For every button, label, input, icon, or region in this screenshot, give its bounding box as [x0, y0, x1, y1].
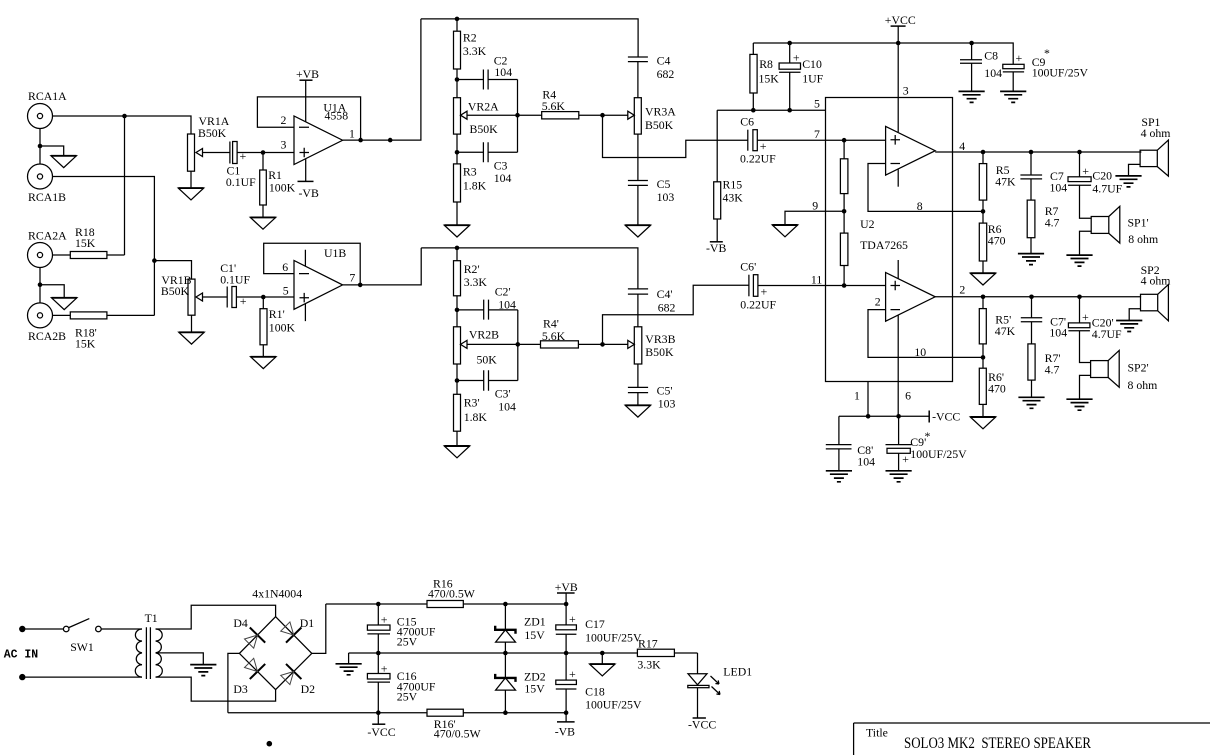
- speaker SP2: [1141, 263, 1171, 321]
- svg-text:R8: R8: [759, 57, 773, 71]
- svg-text:B50K: B50K: [161, 284, 190, 298]
- ground SP1: [1115, 176, 1141, 187]
- svg-text:6: 6: [282, 260, 288, 274]
- wire SP1 return: [1129, 164, 1141, 176]
- power +VB at C17: [555, 580, 578, 604]
- svg-text:5.6K: 5.6K: [542, 99, 566, 113]
- resistor R17: [637, 637, 674, 672]
- ground SP2: [1116, 321, 1142, 332]
- ground R7': [1018, 397, 1044, 408]
- wire AC bottom to transformer: [26, 676, 143, 678]
- resistor R15: [714, 178, 744, 242]
- wire -VCC rail under U2: [839, 415, 929, 417]
- junction ZD1 top: [503, 602, 508, 607]
- resistor R7: [1027, 200, 1059, 254]
- svg-text:100UF/25V: 100UF/25V: [910, 447, 967, 461]
- junction pin8 node: [981, 209, 986, 214]
- power -VCC at LED1: [688, 718, 716, 732]
- svg-text:C6': C6': [740, 260, 756, 274]
- junction U1A + input node: [261, 150, 266, 155]
- potentiometer VR2B: [454, 327, 518, 367]
- capacitor C3': [457, 370, 518, 413]
- svg-text:C4: C4: [657, 54, 671, 68]
- svg-text:47K: 47K: [995, 324, 1016, 338]
- junction C10 bottom: [787, 108, 792, 113]
- capacitor C1': [220, 261, 263, 308]
- junction VR1B node: [152, 258, 157, 263]
- wire -VCC PSU rail: [228, 712, 566, 714]
- resistor R1: [260, 153, 296, 218]
- node marker dot: [267, 741, 273, 747]
- capacitor C10: [779, 43, 824, 110]
- ground C5: [625, 225, 650, 237]
- svg-text:+: +: [1082, 310, 1089, 324]
- svg-text:15V: 15V: [524, 628, 545, 642]
- junction pin9 internal: [842, 209, 847, 214]
- svg-text:43K: 43K: [723, 191, 744, 205]
- svg-text:25V: 25V: [397, 635, 418, 649]
- svg-text:C8: C8: [984, 49, 998, 63]
- capacitor C6: [740, 115, 826, 166]
- svg-text:104: 104: [1049, 326, 1067, 340]
- junction R5 top: [981, 150, 986, 155]
- wire shield elbow 1: [40, 146, 64, 156]
- ground R6': [970, 417, 995, 429]
- svg-text:*: *: [1044, 46, 1050, 60]
- svg-text:1UF: 1UF: [802, 72, 823, 86]
- svg-text:R2': R2': [464, 262, 480, 276]
- ground input shield 2: [51, 298, 76, 310]
- svg-text:5.6K: 5.6K: [542, 329, 566, 343]
- resistor R16: [427, 577, 476, 608]
- svg-text:+: +: [381, 613, 388, 627]
- svg-text:C6: C6: [740, 115, 754, 129]
- svg-text:+: +: [381, 662, 388, 676]
- svg-text:C2': C2': [495, 285, 511, 299]
- wire pin7 row: [826, 139, 886, 141]
- resistor R5': [979, 297, 1015, 358]
- svg-text:T1: T1: [145, 611, 158, 625]
- junction C20 top: [1077, 150, 1082, 155]
- capacitor C1: [226, 142, 263, 190]
- potentiometer VR1A: [188, 114, 230, 171]
- svg-text:R17: R17: [638, 637, 658, 651]
- wire SP2 return: [1129, 309, 1140, 321]
- svg-text:U1B: U1B: [324, 246, 346, 260]
- wire RCA1A to RCA1B shield link: [39, 129, 41, 165]
- svg-text:2: 2: [281, 113, 287, 127]
- svg-text:8 ohm: 8 ohm: [1128, 378, 1158, 392]
- ground VR1A: [178, 188, 203, 200]
- wire RCA1A junction down to R18: [124, 116, 126, 255]
- svg-text:ZD1: ZD1: [524, 615, 546, 629]
- svg-text:15K: 15K: [759, 72, 780, 86]
- wire secondary bottom to bridge: [156, 677, 276, 701]
- ground R1: [250, 217, 275, 229]
- wire RCA2A to RCA2B shield link: [39, 268, 41, 304]
- svg-text:104: 104: [494, 65, 512, 79]
- svg-text:Title: Title: [866, 726, 888, 740]
- junction U1A output node: [388, 138, 393, 143]
- diode D4: [233, 616, 265, 648]
- junction C17 top: [564, 602, 569, 607]
- junction pin7 internal: [842, 138, 847, 143]
- svg-text:5: 5: [283, 284, 289, 298]
- svg-text:4.7UF: 4.7UF: [1092, 327, 1122, 341]
- wire bridge diamond: [239, 617, 311, 690]
- svg-text:VR3B: VR3B: [645, 332, 675, 346]
- svg-text:0.1UF: 0.1UF: [220, 273, 250, 287]
- svg-text:-VB: -VB: [299, 186, 319, 200]
- svg-text:D2: D2: [301, 682, 316, 696]
- wire U1A output to tone rail: [343, 19, 421, 140]
- svg-text:5: 5: [814, 97, 820, 111]
- wire VR2A bottom: [456, 134, 458, 152]
- capacitor C5': [628, 384, 676, 411]
- ground R7: [1018, 254, 1044, 265]
- svg-text:SP1': SP1': [1128, 216, 1149, 230]
- wire U1A feedback pin2: [257, 97, 360, 140]
- svg-text:15K: 15K: [75, 236, 96, 250]
- svg-text:U2: U2: [860, 217, 875, 231]
- junction C8 top: [969, 41, 974, 46]
- wire RCA1A output to VR1A top: [53, 116, 192, 134]
- svg-text:7: 7: [349, 271, 355, 285]
- junction shield node 2: [38, 282, 43, 287]
- svg-text:4 ohm: 4 ohm: [1141, 126, 1171, 140]
- svg-text:103: 103: [657, 190, 675, 204]
- capacitor C2': [457, 285, 518, 320]
- svg-text:104: 104: [857, 455, 875, 469]
- resistor internal lower: [840, 233, 848, 285]
- junction pin10 node: [981, 355, 986, 360]
- resistor R4: [518, 87, 629, 119]
- capacitor C16: [367, 653, 436, 713]
- transformer T1: [135, 611, 162, 679]
- svg-text:4.7: 4.7: [1045, 216, 1060, 230]
- potentiometer VR3A: [628, 98, 676, 134]
- svg-text:VR2A: VR2A: [468, 100, 499, 114]
- capacitor C7': [1021, 297, 1067, 344]
- potentiometer VR1B: [154, 261, 227, 316]
- junction U1B + input node: [261, 295, 266, 300]
- wire SP1' return: [1080, 231, 1092, 255]
- wire shield elbow 2: [40, 285, 64, 298]
- junction R2' top: [455, 246, 460, 251]
- resistor R7': [1028, 344, 1061, 397]
- potentiometer VR3B: [628, 327, 676, 364]
- svg-text:+: +: [569, 667, 576, 681]
- junction C7 top: [1029, 150, 1034, 155]
- svg-text:+: +: [569, 612, 576, 626]
- junction R4' VR3B node: [600, 342, 605, 347]
- svg-text:3.3K: 3.3K: [464, 275, 488, 289]
- svg-text:2: 2: [875, 295, 881, 309]
- svg-text:C18: C18: [585, 685, 605, 699]
- junction C15 top: [376, 602, 381, 607]
- svg-text:-VCC: -VCC: [367, 725, 395, 739]
- svg-text:100UF/25V: 100UF/25V: [585, 698, 642, 712]
- wire upper tone rail: [421, 19, 638, 57]
- speaker SP2': [1091, 350, 1158, 392]
- resistor R3: [454, 152, 487, 225]
- wire pin5 branch vertical: [716, 110, 718, 182]
- ground R6: [970, 273, 995, 285]
- capacitor C8': [826, 416, 875, 471]
- svg-text:D3: D3: [233, 682, 248, 696]
- ground mid rail triangle: [590, 664, 615, 676]
- svg-text:C5': C5': [657, 384, 673, 398]
- svg-text:6: 6: [905, 389, 911, 403]
- resistor R8: [750, 43, 779, 110]
- capacitor C9: [1003, 46, 1089, 91]
- svg-text:104: 104: [984, 66, 1002, 80]
- power -VB at R15: [706, 241, 726, 255]
- svg-text:RCA2B: RCA2B: [28, 329, 66, 343]
- svg-text:C10: C10: [802, 57, 822, 71]
- power -VCC at U2: [929, 410, 960, 424]
- svg-text:4.7: 4.7: [1045, 363, 1060, 377]
- svg-text:104: 104: [498, 400, 516, 414]
- svg-text:8 ohm: 8 ohm: [1128, 232, 1158, 246]
- ground SP2': [1066, 399, 1092, 410]
- svg-text:4558: 4558: [325, 109, 349, 123]
- svg-text:104: 104: [494, 171, 512, 185]
- zener diode ZD2: [495, 653, 546, 713]
- svg-text:2: 2: [959, 283, 965, 297]
- svg-text:SP2': SP2': [1128, 361, 1149, 375]
- wire mid rail ground stub: [348, 653, 350, 664]
- wire U2 upper feedback pin8 row: [868, 164, 983, 212]
- svg-text:-VB: -VB: [555, 725, 575, 739]
- terminal AC IN top: [19, 626, 25, 632]
- LED LED1: [688, 665, 752, 719]
- svg-text:RCA2A: RCA2A: [28, 229, 67, 243]
- junction C18 bottom: [564, 710, 569, 715]
- resistor R5: [979, 152, 1016, 211]
- op-amp U1A: [281, 101, 356, 165]
- wire pin9 ground branch: [785, 211, 826, 225]
- svg-text:104: 104: [498, 298, 516, 312]
- wire RCA1B output down to R18' row: [53, 177, 155, 316]
- connector RCA2A: [28, 229, 68, 268]
- wire U1B output to lower tone rail: [343, 248, 422, 285]
- svg-text:C3': C3': [495, 387, 511, 401]
- resistor R16': [427, 709, 482, 740]
- svg-text:1.8K: 1.8K: [464, 410, 488, 424]
- wire switch to transformer: [101, 628, 142, 630]
- capacitor C17: [556, 604, 642, 653]
- ground R1': [251, 357, 276, 369]
- svg-text:8: 8: [917, 199, 923, 213]
- op-amp U2 lower half: [875, 260, 935, 321]
- svg-text:470: 470: [988, 234, 1006, 248]
- svg-text:+: +: [793, 51, 800, 65]
- capacitor C20: [1068, 152, 1123, 218]
- junction pin1 -VCC: [866, 414, 871, 419]
- wire VR1B bottom: [191, 315, 193, 332]
- svg-text:-VB: -VB: [706, 241, 726, 255]
- ground R3': [444, 446, 469, 458]
- svg-text:682: 682: [657, 67, 675, 81]
- svg-text:4: 4: [959, 139, 965, 153]
- junction +VCC pin3: [896, 41, 901, 46]
- wire VR2B bottom: [456, 364, 458, 381]
- power -VCC below C16: [367, 713, 395, 739]
- svg-text:+VB: +VB: [296, 67, 319, 81]
- resistor R18': [53, 312, 155, 351]
- junction C17 C18 mid: [564, 651, 569, 656]
- capacitor C20': [1068, 297, 1122, 363]
- svg-text:RCA1B: RCA1B: [28, 190, 66, 204]
- svg-text:+VB: +VB: [555, 580, 578, 594]
- svg-text:VR3A: VR3A: [645, 105, 676, 119]
- resistor R4': [518, 317, 628, 349]
- svg-text:B50K: B50K: [470, 122, 499, 136]
- junction pin6 -VCC: [896, 414, 901, 419]
- speaker SP1': [1091, 206, 1158, 246]
- ground C8': [826, 471, 852, 482]
- resistor R6: [979, 211, 1005, 273]
- svg-text:C17: C17: [585, 617, 605, 631]
- svg-text:4.7UF: 4.7UF: [1092, 182, 1122, 196]
- wire secondary top to bridge: [156, 605, 276, 629]
- svg-text:7: 7: [814, 127, 820, 141]
- svg-text:15K: 15K: [75, 337, 96, 351]
- svg-text:-VCC: -VCC: [932, 410, 960, 424]
- wire +VCC rail: [753, 43, 1013, 64]
- capacitor C2: [457, 54, 518, 90]
- svg-text:25V: 25V: [397, 690, 418, 704]
- wire +VCC PSU rail: [326, 603, 566, 605]
- wire pin4 output row: [935, 151, 1141, 153]
- wire lower tone output to C6': [603, 285, 749, 344]
- ground T1 center tap: [190, 665, 216, 676]
- wire VR3B bottom: [637, 364, 639, 387]
- capacitor C4: [628, 54, 674, 98]
- svg-text:*: *: [925, 429, 931, 443]
- wire pin6: [897, 315, 899, 416]
- svg-text:C20: C20: [1092, 169, 1112, 183]
- svg-text:9: 9: [812, 199, 818, 213]
- svg-text:3: 3: [281, 138, 287, 152]
- ground C9: [1000, 91, 1026, 102]
- wire VR1A bottom: [190, 171, 192, 188]
- junction RCA1A node: [122, 114, 127, 119]
- power -VB at C18: [555, 713, 575, 739]
- svg-text:-VCC: -VCC: [688, 718, 716, 732]
- svg-text:B50K: B50K: [645, 345, 674, 359]
- connector RCA1B: [28, 164, 67, 204]
- svg-text:682: 682: [658, 301, 676, 315]
- svg-text:VR2B: VR2B: [469, 328, 499, 342]
- svg-text:R3': R3': [464, 396, 480, 410]
- svg-text:+: +: [902, 452, 909, 466]
- svg-text:+: +: [240, 149, 247, 163]
- capacitor C3: [457, 142, 518, 185]
- junction pin11 internal: [842, 283, 847, 288]
- wire pin11 row: [826, 285, 886, 287]
- resistor R6': [979, 357, 1006, 417]
- wire lower tone rail: [421, 248, 638, 289]
- svg-text:D4: D4: [233, 616, 248, 630]
- junction gnd triangle mid: [600, 651, 605, 656]
- svg-text:104: 104: [1050, 181, 1068, 195]
- svg-text:D1: D1: [300, 616, 315, 630]
- svg-text:100K: 100K: [269, 321, 296, 335]
- wire bridge right to +VCC rail: [312, 604, 326, 653]
- zener diode ZD1: [495, 604, 546, 653]
- junction R2' bottom node: [455, 308, 460, 313]
- svg-text:+: +: [1082, 164, 1089, 178]
- wire secondary center tap: [156, 653, 204, 665]
- svg-text:1: 1: [349, 127, 355, 141]
- ground SP1': [1066, 255, 1092, 266]
- junction C20' top: [1077, 295, 1082, 300]
- svg-text:470/0.5W: 470/0.5W: [434, 727, 482, 741]
- wire pin5 row: [717, 109, 825, 111]
- svg-text:R3: R3: [463, 165, 477, 179]
- diode D3: [233, 658, 265, 696]
- ground C8: [959, 91, 985, 102]
- wire pin9 row: [826, 210, 845, 212]
- wire R17 to LED: [697, 653, 699, 674]
- diode D1: [281, 616, 315, 643]
- resistor R2: [454, 19, 487, 98]
- connector RCA1A: [28, 89, 68, 129]
- resistor R3': [454, 381, 488, 447]
- wire pin2 output row: [935, 296, 1141, 298]
- capacitor C7: [1020, 152, 1067, 200]
- connector RCA2B: [28, 303, 67, 343]
- resistor R18: [53, 225, 125, 259]
- speaker SP1: [1140, 115, 1170, 176]
- svg-text:R15: R15: [723, 178, 743, 192]
- svg-text:1: 1: [854, 389, 860, 403]
- svg-text:+: +: [1016, 51, 1023, 65]
- wire AC top to switch: [26, 628, 64, 630]
- capacitor C9': [886, 416, 968, 471]
- svg-text:15V: 15V: [524, 682, 545, 696]
- svg-text:100UF/25V: 100UF/25V: [585, 631, 642, 645]
- svg-text:LED1: LED1: [723, 665, 752, 679]
- svg-text:RCA1A: RCA1A: [28, 89, 67, 103]
- wire PSU mid rail: [349, 652, 698, 654]
- junction C16 top: [376, 651, 381, 656]
- svg-text:50K: 50K: [477, 353, 498, 367]
- terminal AC IN bottom: [19, 674, 25, 680]
- junction VR2A wiper node: [515, 113, 520, 118]
- junction R8 bottom: [751, 108, 756, 113]
- ground C5': [625, 405, 650, 417]
- wire to U1B pin5: [263, 296, 294, 298]
- wire pin3 from +VCC into box: [897, 43, 899, 132]
- svg-text:0.1UF: 0.1UF: [226, 175, 256, 189]
- svg-text:B50K: B50K: [198, 126, 227, 140]
- svg-text:4x1N4004: 4x1N4004: [252, 587, 302, 601]
- svg-text:R1': R1': [269, 307, 285, 321]
- junction R4 VR3A node: [600, 113, 605, 118]
- svg-text:AC IN: AC IN: [4, 649, 39, 662]
- wire U1B feedback pin6: [264, 243, 361, 285]
- wire SP2' return: [1080, 375, 1091, 399]
- svg-text:0.22UF: 0.22UF: [740, 152, 776, 166]
- svg-text:10: 10: [914, 345, 926, 359]
- svg-text:C5: C5: [657, 177, 671, 191]
- svg-text:100UF/25V: 100UF/25V: [1032, 66, 1089, 80]
- ground R3: [444, 225, 469, 237]
- capacitor C18: [556, 653, 642, 713]
